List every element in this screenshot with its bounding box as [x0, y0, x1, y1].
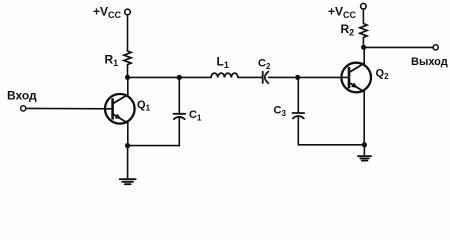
wire C2 to C3 node: [268, 76, 297, 78]
node emitter Q2 junction: [362, 142, 367, 147]
capacitor C3: [274, 77, 305, 144]
wire output: [364, 46, 433, 48]
resistor R2: [341, 22, 368, 38]
wire L1 to C2: [238, 76, 262, 78]
wire base Q2: [298, 76, 349, 78]
wire Vcc to R1: [127, 15, 129, 51]
inductor L1: [211, 55, 238, 78]
svg-text:Q2: Q2: [376, 68, 390, 82]
transistor Q1: [105, 77, 151, 145]
svg-text:+VCC: +VCC: [93, 5, 122, 21]
wire C3 bottom to emitter Q2 node: [298, 144, 364, 146]
node C3 top junction: [295, 75, 300, 80]
ground left: [120, 179, 136, 184]
ground right: [358, 156, 371, 160]
wire C1 node to L1: [179, 76, 211, 78]
resistor R1: [105, 51, 132, 68]
node collector Q1 junction: [125, 75, 130, 80]
wire emitter node to C1 bottom: [128, 145, 180, 147]
svg-text:R1: R1: [105, 53, 119, 69]
input terminal Вход: [7, 89, 37, 112]
svg-text:Выход: Выход: [411, 56, 448, 68]
wire R2 to output node: [362, 38, 364, 48]
power terminal +Vcc left: [93, 5, 130, 21]
svg-text:Q1: Q1: [137, 99, 151, 113]
wire emitter Q2 node to ground: [363, 145, 365, 156]
node C1 top junction: [177, 75, 182, 80]
svg-text:+VCC: +VCC: [328, 5, 357, 21]
wire input to base Q1: [26, 107, 113, 109]
svg-text:R2: R2: [341, 22, 355, 38]
transistor Q2: [341, 47, 389, 145]
output terminal Выход: [411, 45, 448, 68]
power terminal +Vcc right: [328, 4, 366, 21]
node output junction: [361, 45, 366, 50]
node emitter Q1 junction: [125, 143, 130, 148]
wire emitter node to ground: [127, 146, 129, 179]
wire top rail: node to C1 node: [128, 76, 180, 78]
capacitor C2: [258, 58, 271, 84]
svg-text:C3: C3: [274, 105, 287, 119]
svg-text:C1: C1: [189, 109, 202, 123]
svg-text:C2: C2: [258, 58, 271, 72]
wire Vcc right to R2: [362, 9, 364, 23]
wire R1 to collector node: [127, 65, 129, 78]
capacitor C1: [173, 77, 202, 145]
svg-text:Вход: Вход: [7, 89, 37, 103]
svg-text:L1: L1: [217, 55, 229, 71]
